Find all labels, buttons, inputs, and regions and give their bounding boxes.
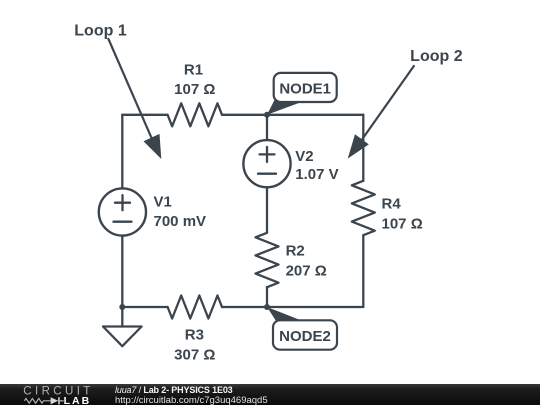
svg-text:NODE1: NODE1 [279,80,331,97]
svg-text:Loop 2: Loop 2 [410,48,463,65]
voltage source V2 [243,140,290,187]
label R4 [382,196,423,233]
svg-text:1.07 V: 1.07 V [295,166,338,183]
ground junction dot [119,304,125,310]
svg-text:R1: R1 [184,62,203,79]
svg-text:207 Ω: 207 Ω [286,262,327,279]
wire middle between V2 and R2 [266,187,268,232]
svg-text:107 Ω: 107 Ω [382,215,423,232]
svg-text:307 Ω: 307 Ω [174,346,215,363]
svg-text:107 Ω: 107 Ω [174,81,215,98]
annotation Loop 1 [74,23,161,159]
wire right upper [362,115,364,181]
wire bottom-right [267,306,363,308]
wire bottom-middle [222,306,267,308]
voltage source V1 [99,188,146,235]
node NODE1 junction dot [264,112,270,118]
svg-text:R3: R3 [185,326,204,343]
footer bar [0,384,540,405]
svg-text:http://circuitlab.com/c7g3uq46: http://circuitlab.com/c7g3uq469aqd5 [115,395,268,405]
svg-text:R4: R4 [382,196,402,213]
svg-text:R2: R2 [286,243,305,260]
svg-text:NODE2: NODE2 [279,328,331,345]
resistor R3 [168,296,222,319]
svg-text:V1: V1 [154,194,172,211]
label R3 [174,326,215,363]
wire top-left horizontal [122,114,167,116]
node label NODE1 [267,73,337,115]
footer title text [115,385,268,405]
label R1 [174,62,215,99]
wire left upper [121,115,123,189]
wire middle lower [266,287,268,307]
svg-text:LAB: LAB [64,395,92,405]
svg-text:Loop 1: Loop 1 [74,23,127,40]
svg-text:700 mV: 700 mV [154,213,207,230]
ground [103,307,142,346]
logo CircuitLab [23,385,93,405]
resistor R1 [168,103,222,126]
label V1 [154,194,207,231]
node NODE2 junction dot [264,304,270,310]
wire top-right [267,114,363,116]
resistor R2 [256,233,279,287]
resistor R4 [352,181,375,235]
annotation Loop 2 [348,48,463,159]
svg-text:luua7 / Lab 2- PHYSICS 1E03: luua7 / Lab 2- PHYSICS 1E03 [115,385,233,395]
label R2 [286,243,327,280]
wire bottom-left [122,306,167,308]
wire right lower [362,235,364,307]
wire middle upper [266,115,268,140]
node label NODE2 [267,307,337,350]
label V2 [295,148,338,183]
wire left lower [121,236,123,307]
wire top-middle [222,114,267,116]
svg-text:V2: V2 [295,148,313,165]
